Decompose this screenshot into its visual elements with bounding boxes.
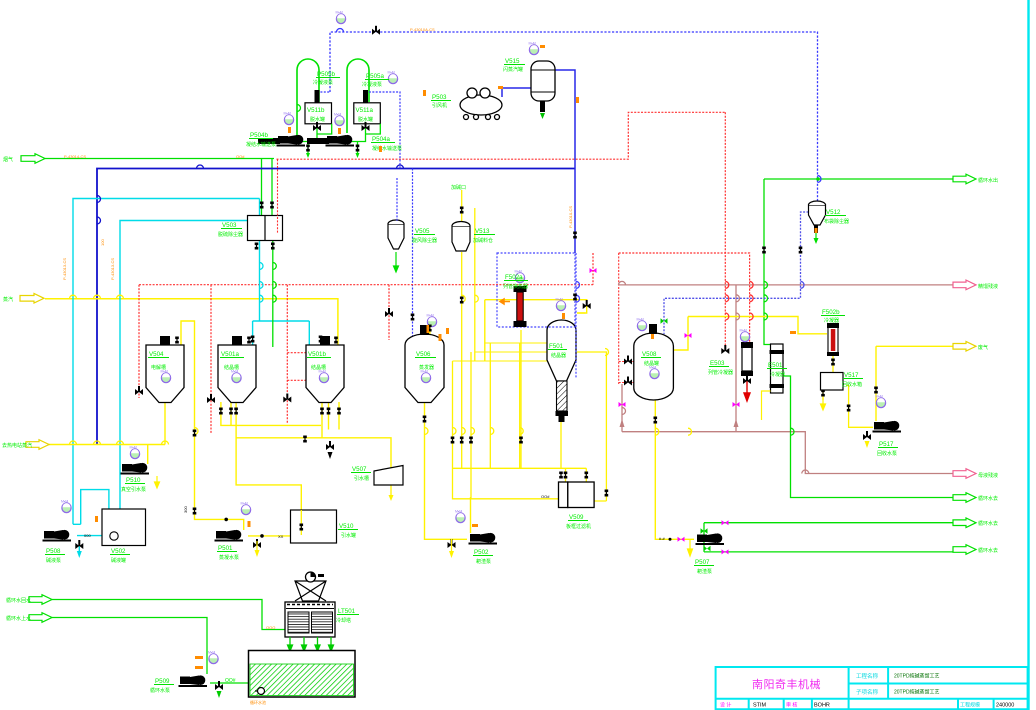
column P505b <box>297 59 319 139</box>
svg-text:V501b: V501b <box>308 351 326 358</box>
pipe yellow F502b to V517 to P517 <box>823 355 873 427</box>
pump P508 <box>43 530 72 542</box>
arrows green LT501 to basin <box>288 637 334 651</box>
border frame right <box>1027 0 1029 710</box>
crystallizer F501 <box>547 320 576 381</box>
pipe yellow V501b outlets <box>322 402 339 438</box>
arrow yellow V517 drain <box>821 398 826 410</box>
svg-text:OOO: OOO <box>266 625 275 630</box>
svg-text:循环水去: 循环水去 <box>978 547 998 554</box>
valve black trunk end <box>326 441 334 450</box>
orange ticks <box>84 45 818 705</box>
valve green basin line <box>669 538 672 541</box>
svg-text:子项名称: 子项名称 <box>856 688 879 696</box>
pipe cyan scrubber water 1 <box>73 199 260 525</box>
svg-text:加碱料仓: 加碱料仓 <box>473 237 493 244</box>
instrument V511a side <box>334 113 344 126</box>
pipe green V511a drop <box>351 124 380 155</box>
arrow rosy up left <box>620 419 625 427</box>
svg-text:V507: V507 <box>352 466 367 473</box>
valve black yellow F501 right <box>583 300 591 309</box>
instrument top main <box>336 11 346 24</box>
svg-text:P505b: P505b <box>317 71 335 78</box>
V512 drain <box>814 225 818 233</box>
valve green P507 v2 <box>704 546 711 552</box>
svg-text:脱水罐: 脱水罐 <box>310 116 325 123</box>
svg-text:V511b: V511b <box>307 107 325 114</box>
pipe blue V511a vent <box>366 92 401 169</box>
column P505a <box>347 59 369 133</box>
filter V509 <box>559 482 568 508</box>
svg-text:冷凝液泵: 冷凝液泵 <box>313 79 333 86</box>
pipe rosy down branches <box>622 285 961 474</box>
svg-text:P-43014-CS: P-43014-CS <box>64 154 86 159</box>
svg-text:E501: E501 <box>768 362 783 369</box>
svg-text:去热电站蒸汽: 去热电站蒸汽 <box>2 442 32 449</box>
svg-text:V509: V509 <box>569 514 584 521</box>
svg-text:V513: V513 <box>475 228 490 235</box>
svg-text:LT501: LT501 <box>338 608 356 615</box>
exchanger F502a <box>514 286 527 292</box>
pipe red V508 loop <box>619 253 634 384</box>
svg-text:STIM: STIM <box>753 703 767 709</box>
pipe yellow F501 right nozzle <box>577 313 606 501</box>
svg-text:P502: P502 <box>474 549 489 556</box>
svg-text:南阳奇丰机械: 南阳奇丰机械 <box>752 677 821 691</box>
svg-text:闪蒸汽罐: 闪蒸汽罐 <box>503 66 523 73</box>
instrument E503 top <box>740 329 750 342</box>
instrument V506 inner <box>421 370 431 383</box>
fan LT501 <box>295 581 326 601</box>
pump P501 <box>215 530 244 542</box>
svg-text:回收水箱: 回收水箱 <box>842 381 862 388</box>
svg-text:蒸凝水泵: 蒸凝水泵 <box>219 554 239 561</box>
instrument V508 inner <box>649 366 659 379</box>
arrow circ return in <box>29 595 52 605</box>
silo V513 <box>452 226 470 251</box>
svg-text:旋风除尘器: 旋风除尘器 <box>412 237 437 244</box>
svg-text:V508: V508 <box>642 351 657 358</box>
crystallizer V508 <box>634 333 674 400</box>
pipe green P507 outlets <box>704 523 961 552</box>
vessel V511a <box>354 103 381 124</box>
svg-text:V506: V506 <box>416 351 431 358</box>
pipe yellow gas main <box>674 317 827 351</box>
svg-text:循环水回水: 循环水回水 <box>6 597 31 604</box>
instrument V511b side <box>284 112 294 125</box>
valve green blue drop V508 <box>661 318 668 324</box>
F501 hatched pipe <box>557 381 568 411</box>
junction dots <box>816 177 820 181</box>
svg-text:结晶器: 结晶器 <box>551 352 566 359</box>
svg-text:精馏残液: 精馏残液 <box>978 283 998 290</box>
svg-text:结晶槽: 结晶槽 <box>224 364 239 371</box>
drain yellow P501 <box>253 539 261 548</box>
evaporator V506 <box>405 334 444 402</box>
svg-text:P504b: P504b <box>250 132 268 139</box>
drain yellow P507 <box>688 539 693 556</box>
valve black E503 red top <box>721 345 729 354</box>
svg-text:母液残液: 母液残液 <box>978 472 998 479</box>
svg-text:烟气: 烟气 <box>3 156 13 163</box>
pipe yellow V513 feed <box>461 190 463 222</box>
pump P502 <box>469 533 498 545</box>
black marks P504 row <box>258 138 280 144</box>
cyclone V512 <box>809 205 826 225</box>
pipe indigo V512 line <box>664 212 809 334</box>
pipe green circ water supply bottom <box>52 618 249 684</box>
svg-text:P503: P503 <box>432 94 447 101</box>
svg-text:冷却塔: 冷却塔 <box>336 617 351 624</box>
valve black V511b under <box>313 122 321 131</box>
svg-text:P504a: P504a <box>372 136 390 143</box>
instrument V508 top <box>637 318 647 331</box>
pipe yellow V501a outlets header <box>221 402 391 535</box>
pipe blue V506 feed <box>412 169 414 340</box>
svg-text:蒸汽: 蒸汽 <box>3 296 13 303</box>
svg-text:冷凝器: 冷凝器 <box>770 371 785 378</box>
tank V517 <box>821 373 844 391</box>
instrument V515 top <box>529 42 539 55</box>
svg-text:冷凝器: 冷凝器 <box>824 317 839 324</box>
pipe yellow E501 drain <box>762 391 771 420</box>
tank V501b <box>306 336 344 403</box>
arrow waste gas out <box>953 342 976 352</box>
svg-text:20TPD纯碱蒸馏工艺: 20TPD纯碱蒸馏工艺 <box>894 673 940 680</box>
pipe red dust main <box>277 112 726 159</box>
pipe steam yellow main <box>45 299 338 345</box>
svg-text:F502b: F502b <box>822 309 840 316</box>
svg-text:P510: P510 <box>126 477 141 484</box>
valve stack V511b top <box>315 90 320 103</box>
instrument V501b inner <box>319 370 329 383</box>
valve magenta P507 out1 <box>722 520 729 525</box>
pipe yellow waste-gas arrow line <box>876 346 961 421</box>
svg-text:240000: 240000 <box>996 703 1014 709</box>
svg-text:碱液罐: 碱液罐 <box>111 557 126 564</box>
cyclone V505 <box>388 224 404 249</box>
pump P507 <box>696 533 725 545</box>
svg-text:碱液泵: 碱液泵 <box>46 557 61 564</box>
instrument V511a vent <box>388 71 398 84</box>
svg-text:板框过滤机: 板框过滤机 <box>566 523 591 530</box>
pipe jog bumps <box>70 29 822 474</box>
valve stack V515 bottom <box>540 101 545 112</box>
pipe yellow V506 top stub <box>429 319 431 339</box>
svg-text:P-43013-CS: P-43013-CS <box>110 258 115 280</box>
instrument F501 top <box>556 298 566 311</box>
svg-text:列管冷凝器: 列管冷凝器 <box>708 369 733 376</box>
pump P509 <box>179 675 208 687</box>
svg-text:引水槽: 引水槽 <box>354 475 369 482</box>
valve magenta yellow gas <box>685 333 692 338</box>
svg-text:结晶槽: 结晶槽 <box>311 364 326 371</box>
instrument P502 <box>455 510 465 523</box>
svg-text:工程规模: 工程规模 <box>960 702 980 709</box>
vessel V511b <box>305 103 332 124</box>
svg-text:P505a: P505a <box>366 73 384 80</box>
flange marks various <box>255 243 259 250</box>
pipe yellow V507 arrow <box>389 495 394 501</box>
svg-text:脱水罐: 脱水罐 <box>358 116 373 123</box>
pipe rosy mother-liquor main <box>619 284 961 286</box>
svg-text:真空引水泵: 真空引水泵 <box>121 486 146 493</box>
instrument V504 inner <box>161 370 171 383</box>
pipe yellow V513 side line <box>474 208 476 361</box>
svg-text:循环水出: 循环水出 <box>978 177 998 184</box>
arrow mother liquor out <box>953 469 976 479</box>
svg-text:000: 000 <box>84 533 91 538</box>
pipe cyan V503 down tee <box>253 241 310 348</box>
svg-text:P508: P508 <box>46 548 61 555</box>
svg-text:V505: V505 <box>415 228 430 235</box>
pipe yellow into V510 <box>300 510 302 535</box>
instrument F502a top <box>515 270 525 283</box>
svg-text:XX: XX <box>278 534 284 539</box>
svg-text:结晶罐: 结晶罐 <box>644 360 659 367</box>
svg-text:OO#: OO# <box>225 678 236 684</box>
svg-text:设 计: 设 计 <box>720 702 731 709</box>
svg-text:凝结水输送泵: 凝结水输送泵 <box>246 141 276 148</box>
svg-text:V503: V503 <box>222 222 237 229</box>
pipe yellow F501 ladder <box>453 343 548 361</box>
svg-text:V515: V515 <box>505 58 520 65</box>
arrow circ out 3 <box>953 545 976 555</box>
svg-text:300: 300 <box>183 506 188 513</box>
valve stack V511a top <box>363 90 368 103</box>
svg-text:V517: V517 <box>844 372 859 379</box>
svg-text:列管换热器: 列管换热器 <box>503 283 528 290</box>
svg-text:P-43013-CS: P-43013-CS <box>62 258 67 280</box>
pipe yellow F501 steam line <box>485 300 587 361</box>
svg-text:循环水泵: 循环水泵 <box>150 687 170 694</box>
pump P504b <box>277 135 306 147</box>
valve magenta P507 suction <box>678 537 685 542</box>
valve magenta P507 out2 <box>722 549 729 554</box>
svg-text:V502: V502 <box>111 548 126 555</box>
svg-text:V512: V512 <box>826 209 841 216</box>
arrow circ water out <box>953 174 976 184</box>
instrument P508 <box>61 500 71 513</box>
arrow green P504b discharge <box>306 153 310 158</box>
valve black V508 left 1 <box>624 356 632 365</box>
pipe yellow F501 bottom outlet <box>560 421 562 468</box>
arrow distill residue out <box>953 280 976 290</box>
svg-text:E503: E503 <box>710 360 725 367</box>
arrow green V505 drain <box>394 252 399 272</box>
svg-text:20TPD纯碱蒸馏工艺: 20TPD纯碱蒸馏工艺 <box>894 689 940 696</box>
svg-text:OO#: OO# <box>236 154 245 159</box>
condenser E501 <box>771 344 784 393</box>
valve green P507 v1 <box>701 528 708 534</box>
pump P504a <box>326 135 355 147</box>
tank V502 <box>102 509 146 546</box>
pipe red box to E503 <box>619 253 750 343</box>
exchanger F502b <box>828 327 838 353</box>
pump P517 <box>873 421 902 433</box>
svg-text:F502a: F502a <box>505 274 523 281</box>
pipe green V511b drop <box>302 124 332 155</box>
svg-text:P501: P501 <box>218 545 233 552</box>
svg-text:循环水去: 循环水去 <box>978 520 998 527</box>
valve black blue main <box>372 26 380 35</box>
arrow steam2 in <box>26 440 49 450</box>
svg-text:BOHR: BOHR <box>814 703 830 709</box>
svg-text:凝结水输送泵: 凝结水输送泵 <box>372 145 402 152</box>
pipe dark blue main <box>97 169 575 445</box>
pipe V515 to F502a blue <box>555 70 575 253</box>
pipe green V503 drop <box>272 241 274 348</box>
pipe yellow V504 vapour to P501 <box>181 321 291 536</box>
vessel V503 scrubber <box>248 216 283 241</box>
title block frame <box>716 667 1028 710</box>
svg-text:P-43010A-CS: P-43010A-CS <box>410 27 435 32</box>
svg-text:V511a: V511a <box>356 107 374 114</box>
svg-text:#-#: #-# <box>659 536 666 541</box>
svg-text:P517: P517 <box>879 441 894 448</box>
valve magenta rosy left <box>619 402 626 407</box>
trapezoid V507 <box>374 466 403 486</box>
pipe cyan V502 to P508 <box>77 536 102 552</box>
svg-text:冷凝液泵: 冷凝液泵 <box>362 81 382 88</box>
pipe blue P503 to V515 <box>502 88 531 97</box>
svg-text:回收水泵: 回收水泵 <box>877 450 897 457</box>
drain yellow P502 <box>448 539 456 548</box>
svg-text:废气: 废气 <box>978 344 988 351</box>
valve black red left drops <box>135 386 143 395</box>
svg-text:蒸发器: 蒸发器 <box>419 364 434 371</box>
tank V510 <box>291 510 337 543</box>
pipe green circ water return bottom <box>52 600 285 630</box>
valve magenta F502a branch <box>590 268 597 273</box>
drain green P509 <box>215 681 223 690</box>
cooling tower LT501 <box>285 602 335 637</box>
svg-text:循环水去: 循环水去 <box>978 495 998 502</box>
svg-text:布袋除尘器: 布袋除尘器 <box>824 218 849 225</box>
label underlines <box>45 65 898 685</box>
pipe red spray header <box>139 253 593 433</box>
svg-text:脱硫除尘器: 脱硫除尘器 <box>218 231 243 238</box>
pipe blue vapour main top <box>330 32 818 201</box>
drain yellow P517 <box>863 431 871 440</box>
svg-text:电解槽: 电解槽 <box>151 364 166 371</box>
compressor P503 <box>460 88 502 120</box>
svg-text:耙渣泵: 耙渣泵 <box>697 568 712 575</box>
instrument P509 <box>208 651 218 664</box>
instrument V501a inner <box>231 370 241 383</box>
pipe yellow F502a drop <box>520 330 522 468</box>
pipe blue V511b vent <box>317 92 330 103</box>
valve magenta rosy right <box>733 402 740 407</box>
exchanger E503 <box>742 347 752 371</box>
svg-text:审 核: 审 核 <box>786 702 797 709</box>
svg-text:循环水池: 循环水池 <box>250 699 266 705</box>
pipe red into V503 <box>277 159 279 233</box>
instrument P510 <box>130 446 140 459</box>
svg-text:耙渣泵: 耙渣泵 <box>476 558 491 565</box>
svg-text:100: 100 <box>100 239 105 246</box>
pipe yellow collection headers <box>453 252 587 499</box>
blue box F502a <box>497 253 575 327</box>
svg-text:循环水上水: 循环水上水 <box>6 615 31 622</box>
pipe blue F501 right <box>575 253 577 378</box>
vessel V515 <box>531 61 555 101</box>
basin pool <box>249 651 356 698</box>
arrow rosy up right <box>734 419 739 427</box>
pipe flue-gas green main <box>45 159 274 216</box>
svg-text:工程名称: 工程名称 <box>856 672 879 680</box>
arrow circ out 1 <box>953 493 976 503</box>
tank V501a <box>218 336 256 403</box>
svg-text:引水罐: 引水罐 <box>341 532 356 539</box>
pipe blue to V505 <box>396 178 398 222</box>
svg-text:F501: F501 <box>549 343 564 350</box>
svg-text:V510: V510 <box>339 523 354 530</box>
drain cyan P508 <box>75 540 83 549</box>
arrow flue gas in <box>21 154 45 164</box>
pipe yellow V506 outlet to P502 <box>425 402 471 539</box>
pump P510 <box>121 463 150 475</box>
tank V504 <box>146 336 184 403</box>
pipe cyan scrubber water 2 <box>120 221 248 510</box>
pipe yellow V507 drain <box>390 485 392 497</box>
svg-text:V501a: V501a <box>221 351 239 358</box>
arrow circ out 2 <box>953 518 976 528</box>
svg-text:引风机: 引风机 <box>432 102 447 109</box>
pipe yellow steam branch trunk <box>47 402 165 464</box>
instrument P517 <box>876 395 886 408</box>
instrument P501 <box>241 502 251 515</box>
svg-text:P507: P507 <box>695 559 710 566</box>
svg-text:V504: V504 <box>149 351 164 358</box>
svg-text:P-43010-CS: P-43010-CS <box>568 206 573 228</box>
pipe red E503 drain <box>744 376 750 401</box>
valve black V508 left 2 <box>624 377 632 386</box>
arrow circ supply in <box>29 613 52 623</box>
instrument V506 top <box>427 314 437 327</box>
svg-text:加碱口: 加碱口 <box>451 184 466 191</box>
pipe yellow V508 bottom to P507 <box>655 401 694 540</box>
arrow steam in <box>20 294 44 304</box>
pipe red vertical to E503 <box>724 112 726 349</box>
arrow green P504a discharge <box>356 153 360 158</box>
pipe red branches V501b <box>287 353 306 381</box>
svg-text:OO#: OO# <box>541 494 550 499</box>
pipe green circulating water top <box>764 179 961 498</box>
svg-text:P509: P509 <box>155 678 170 685</box>
arrow yellow P510 discharge <box>155 476 160 488</box>
